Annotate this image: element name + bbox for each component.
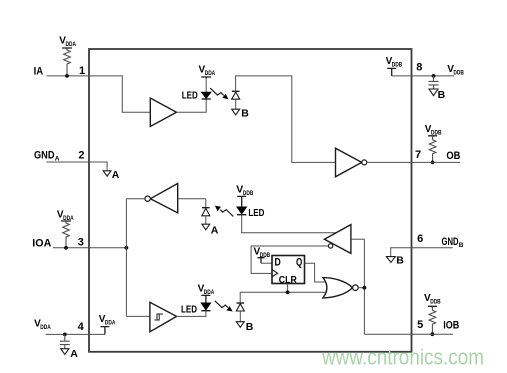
wire inverter4 bubble to DFF clock xyxy=(251,246,328,273)
svg-text:7: 7 xyxy=(415,149,421,161)
junction pin3/resistor xyxy=(64,246,68,250)
svg-text:LED: LED xyxy=(182,91,198,102)
photodiode D2 xyxy=(205,199,207,208)
svg-text:DDB: DDB xyxy=(430,299,441,306)
svg-text:B: B xyxy=(246,321,254,333)
wire photodiode1 anode to ground xyxy=(235,99,237,109)
wire NOR output xyxy=(358,287,364,289)
svg-text:B: B xyxy=(241,108,249,120)
wire pin 8 internal xyxy=(392,75,412,77)
wire IOB pin 5 line xyxy=(364,333,453,335)
supply bar VDDA (pin 1) xyxy=(62,48,72,50)
wire GND_B pin 6 line xyxy=(391,248,453,257)
wire photodiode3 anode to ground xyxy=(239,311,241,322)
resistor pull-up at pin 7 xyxy=(429,136,436,163)
svg-text:A: A xyxy=(70,348,78,360)
junction pin4/capacitor xyxy=(63,333,67,337)
svg-text:B: B xyxy=(396,255,404,267)
svg-text:A: A xyxy=(211,224,219,236)
svg-text:5: 5 xyxy=(417,319,423,331)
wire VDDB pin 8 line xyxy=(412,75,455,77)
ground B (photodiode3) xyxy=(236,322,244,328)
svg-text:2: 2 xyxy=(78,150,84,162)
svg-text:3: 3 xyxy=(78,237,84,249)
resistor pull-up at pin 3 xyxy=(63,221,70,248)
buffer U1 channel 1 xyxy=(150,98,176,127)
supply bar VDDB (pin 5) xyxy=(428,306,437,308)
junction node IOA internal xyxy=(125,246,129,250)
wire GND_A pin 2 line xyxy=(46,162,107,171)
light arrow channel 1 xyxy=(210,88,224,95)
ground B (photodiode1) xyxy=(232,109,240,115)
photodiode D3 xyxy=(237,302,245,304)
wire LED2 cathode to inverter4 xyxy=(242,215,336,233)
svg-text:GND: GND xyxy=(34,150,55,162)
supply bar VDDA (LED3) xyxy=(201,295,210,303)
wire Q output to NOR xyxy=(305,263,325,282)
LED1 anode wire xyxy=(205,78,207,92)
svg-text:DDB: DDB xyxy=(392,62,403,69)
svg-text:LED: LED xyxy=(248,208,264,219)
wire IOA to schmitt input xyxy=(126,315,149,317)
wire pin1 internal elbow xyxy=(89,76,151,112)
resistor pull-up at pin 5 xyxy=(429,306,436,334)
supply bar VDDB internal (pin 8) xyxy=(387,68,396,76)
svg-text:1: 1 xyxy=(79,65,85,77)
svg-text:DDB: DDB xyxy=(453,69,464,76)
wire inverter3 input from photodiode2 xyxy=(178,198,206,200)
ground A (pin 2) xyxy=(103,171,111,176)
inverter U4 (drives LED2, clock) xyxy=(324,225,351,254)
supply bar VDDB (pin 7) xyxy=(428,136,437,138)
wire CLR input stub xyxy=(287,284,289,293)
photodiode D1 xyxy=(232,90,240,92)
svg-text:IOB: IOB xyxy=(443,319,459,331)
light arrow channel 3 xyxy=(215,301,228,308)
svg-text:D: D xyxy=(275,257,281,269)
NOR gate U7 xyxy=(323,278,353,298)
wire buffer1 output to LED1 xyxy=(177,100,207,113)
svg-text:B: B xyxy=(459,242,464,249)
junction CLR/photodiode3 wire xyxy=(286,290,290,294)
svg-text:8: 8 xyxy=(416,62,422,74)
flip-flop U6 box xyxy=(272,256,305,284)
IC body outline xyxy=(89,49,412,352)
svg-text:www.cntronics.com: www.cntronics.com xyxy=(321,345,484,370)
svg-text:IA: IA xyxy=(34,66,44,78)
ground B (pin 6) xyxy=(386,257,395,263)
schmitt buffer U5 xyxy=(150,302,177,332)
svg-text:A: A xyxy=(112,169,120,181)
wire IA pin 1 line xyxy=(47,75,89,77)
svg-text:IOA: IOA xyxy=(32,237,51,249)
junction pin7/resistor xyxy=(431,161,435,165)
wire IOA pin 3 line xyxy=(53,247,126,249)
LED2 diode xyxy=(237,207,246,214)
inverter U3 (drives IOA) xyxy=(150,184,177,213)
svg-text:DDA: DDA xyxy=(40,324,51,331)
DFF clock wedge xyxy=(272,270,278,277)
svg-text:Q: Q xyxy=(296,257,303,269)
svg-text:6: 6 xyxy=(417,233,423,245)
supply bar VDDB (DFF) xyxy=(258,258,265,264)
ground B (pin 8 cap) xyxy=(429,89,438,96)
wire IOB vertical bus xyxy=(363,239,365,334)
wire photodiode2 anode to ground xyxy=(205,216,207,224)
wire photodiode1 cathode to inverter7 xyxy=(236,76,336,162)
wire inverter3 output to IOA node xyxy=(126,198,144,200)
svg-text:B: B xyxy=(438,89,446,101)
light arrow channel 2 xyxy=(215,206,221,212)
wire OB pin 7 line xyxy=(412,161,461,163)
junction pin8/capacitor xyxy=(432,74,436,78)
wire inverter4 input xyxy=(351,238,365,240)
svg-text:DDA: DDA xyxy=(66,41,77,48)
svg-text:OB: OB xyxy=(446,150,460,162)
wire IOA vertical bus xyxy=(125,199,127,317)
LED1 diode xyxy=(202,92,211,98)
decoupling capacitor at pin 4 xyxy=(60,334,70,348)
svg-text:LED: LED xyxy=(181,305,197,316)
wire inverter7 output xyxy=(367,161,412,163)
wire VDDB to D input xyxy=(261,262,272,264)
wire VDDA pin 4 line xyxy=(46,333,106,335)
supply bar VDDA (pin 3) xyxy=(61,221,71,223)
supply bar VDDB (LED2) xyxy=(237,196,246,207)
supply bar VDDA internal (pin 4) xyxy=(100,327,109,335)
supply bar VDDA (LED1) xyxy=(201,77,211,78)
ground A (pin 4 cap) xyxy=(61,349,69,355)
resistor pull-up at pin 1 xyxy=(64,48,71,76)
wire schmitt output to LED3 xyxy=(177,311,206,316)
junction NOR output / IOB bus xyxy=(363,286,367,290)
svg-text:DDA: DDA xyxy=(105,320,116,327)
ground A (photodiode2) xyxy=(202,224,210,230)
svg-text:DDA: DDA xyxy=(205,70,216,77)
inverter U2 (to pin 7 OB) xyxy=(336,148,362,177)
junction pin1/resistor xyxy=(65,74,69,78)
decoupling capacitor at pin 8 xyxy=(428,76,438,89)
svg-text:GND: GND xyxy=(442,236,459,248)
svg-text:4: 4 xyxy=(78,321,85,333)
junction pin5/resistor xyxy=(431,332,435,336)
wire photodiode3 cathode to logic xyxy=(240,292,326,303)
LED3 diode xyxy=(201,303,210,310)
